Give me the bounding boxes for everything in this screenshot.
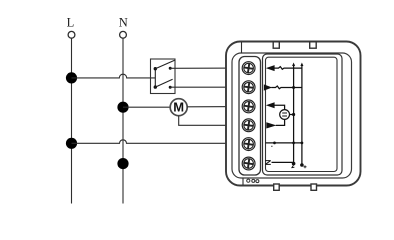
panel small mark <box>271 146 272 147</box>
terminal screw T2 <box>242 81 255 94</box>
wire L to switch box with hop over N <box>72 74 156 78</box>
terminal screw T6 <box>242 157 255 170</box>
svg-text:L: L <box>67 16 75 30</box>
panel row 2 input arrow <box>264 84 272 90</box>
junction dot N rail motor feed <box>117 102 128 113</box>
switch contact dot bottom <box>169 86 172 89</box>
wire N to motor <box>123 106 170 108</box>
mounting tab top 1 <box>273 42 279 48</box>
switch contact dot top <box>169 67 172 70</box>
panel bus 1 bottom end dot <box>292 162 296 166</box>
panel motor link to bus 1 <box>290 114 294 116</box>
switch box S1 <box>151 59 176 94</box>
switch common bar <box>154 69 156 87</box>
wire switch to terminal 1 <box>170 67 242 69</box>
mounting tab bottom 2 <box>311 184 317 190</box>
wire motor to terminal 4 <box>179 116 243 126</box>
panel motor symbol waves <box>282 113 287 116</box>
housing seam bottom-left <box>242 178 244 186</box>
panel row 5 dot at bus 1 <box>292 142 295 145</box>
switch blade bottom <box>155 79 172 87</box>
svg-text:N: N <box>119 16 128 30</box>
panel row 1 line with crimp <box>274 67 302 70</box>
terminal screw T3 <box>242 100 255 113</box>
vent hole 1 <box>247 179 250 182</box>
panel row 2 line with crimp <box>271 86 302 89</box>
junction dot N rail lower <box>117 158 128 169</box>
panel bus 1 end tick <box>291 165 294 168</box>
node L supply terminal circle <box>68 31 75 38</box>
panel row 5 dot at bus 2 <box>301 142 304 145</box>
panel bus 1 <box>293 64 295 163</box>
panel motor link dot at bus 1 <box>292 113 295 116</box>
switch pole dot top <box>154 67 157 70</box>
terminal screw T4 <box>242 119 255 132</box>
device inner housing <box>232 53 352 178</box>
panel row 6 line <box>272 161 294 163</box>
panel row 1 output arrow <box>266 65 275 71</box>
wire L rail vertical <box>71 38 73 203</box>
panel bus 2 <box>301 64 303 165</box>
panel bus 2 end tick <box>304 165 307 168</box>
junction dot L rail lower <box>66 138 77 149</box>
vent hole 3 <box>256 180 259 183</box>
terminal screw T1 <box>242 62 255 75</box>
wire switch to terminal 2 <box>170 86 242 88</box>
panel row 4 line up to motor symbol <box>276 119 285 125</box>
panel motor symbol circle <box>280 110 290 120</box>
svg-text:M: M <box>173 99 184 114</box>
switch pole dot bottom <box>154 85 157 88</box>
wire motor to terminal 3 <box>187 106 242 108</box>
panel row 2 dot at bus 1 <box>292 86 295 89</box>
panel row 6 N glyph <box>265 161 271 165</box>
panel row 4 input arrow <box>266 122 276 128</box>
panel bus 2 bottom end dot <box>300 163 304 167</box>
mounting tab bottom 1 <box>274 184 280 190</box>
housing seam top-left <box>241 42 243 54</box>
terminal block <box>239 57 261 176</box>
device outer housing <box>226 42 361 186</box>
panel bus 2 top arrowhead <box>300 63 303 67</box>
vent hole 2 <box>252 179 255 182</box>
panel row 3 line to motor symbol <box>274 105 285 109</box>
panel row 5 dot <box>273 142 276 145</box>
motor M1 circle <box>170 99 187 116</box>
junction dot L rail upper <box>66 72 77 83</box>
wire N rail vertical <box>122 38 124 203</box>
terminal screw T5 <box>242 138 255 151</box>
label panel inner <box>266 57 338 171</box>
panel bus 1 top arrowhead <box>292 63 295 67</box>
mounting tab top 2 <box>310 42 317 48</box>
wire L to terminal 5 with hop over N <box>72 140 243 144</box>
switch blade top <box>155 60 174 68</box>
label panel outer <box>263 54 343 175</box>
panel row 3 output arrow <box>266 102 275 108</box>
node N supply terminal circle <box>120 31 127 38</box>
panel row 5 line <box>266 142 302 144</box>
